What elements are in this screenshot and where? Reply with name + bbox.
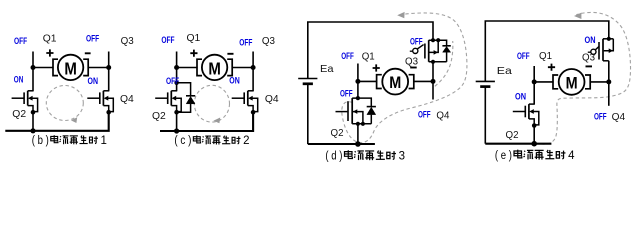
svg-text:Ea: Ea [320,63,334,75]
svg-text:Ea: Ea [497,65,512,77]
svg-text:Q1: Q1 [539,50,552,62]
svg-text:Q1: Q1 [187,32,201,44]
svg-text:Q3: Q3 [121,35,134,47]
svg-text:Q2: Q2 [152,110,166,122]
svg-text:ON: ON [515,92,526,102]
svg-text:ON: ON [88,76,99,86]
svg-text:M: M [566,74,578,92]
svg-text:2: 2 [243,135,249,147]
svg-text:( c ): ( c ) [174,135,191,147]
svg-text:Q2: Q2 [12,108,26,120]
svg-text:OFF: OFF [340,89,353,99]
svg-text:M: M [64,58,77,78]
svg-text:Q4: Q4 [612,111,626,123]
svg-text:M: M [208,58,221,78]
svg-text:Q1: Q1 [362,50,375,62]
svg-text:ON: ON [229,76,240,86]
svg-text:Q3: Q3 [405,56,418,68]
svg-text:1: 1 [101,135,107,147]
svg-text:ON: ON [14,74,24,84]
svg-text:( b ): ( b ) [32,135,49,147]
svg-text:OFF: OFF [166,76,179,86]
svg-text:OFF: OFF [594,112,607,122]
svg-text:Q4: Q4 [265,93,279,105]
svg-text:OFF: OFF [341,51,354,61]
svg-text:OFF: OFF [517,51,530,61]
svg-text:M: M [389,74,401,92]
svg-text:OFF: OFF [410,37,423,47]
svg-text:Q2: Q2 [331,127,344,139]
svg-text:( d ): ( d ) [325,151,342,163]
svg-text:Q1: Q1 [43,32,57,44]
svg-text:Q4: Q4 [436,109,449,121]
svg-text:OFF: OFF [239,38,252,48]
svg-text:Q3: Q3 [262,35,275,47]
svg-text:OFF: OFF [418,109,431,119]
svg-text:Q3: Q3 [582,51,595,63]
svg-text:ON: ON [585,35,596,45]
svg-text:4: 4 [568,150,575,162]
svg-text:OFF: OFF [161,35,174,45]
svg-text:3: 3 [399,151,405,163]
svg-text:OFF: OFF [86,34,99,44]
svg-text:Q4: Q4 [120,93,134,105]
svg-text:OFF: OFF [14,36,27,46]
svg-text:( e ): ( e ) [495,150,512,162]
svg-text:Q2: Q2 [506,129,519,141]
